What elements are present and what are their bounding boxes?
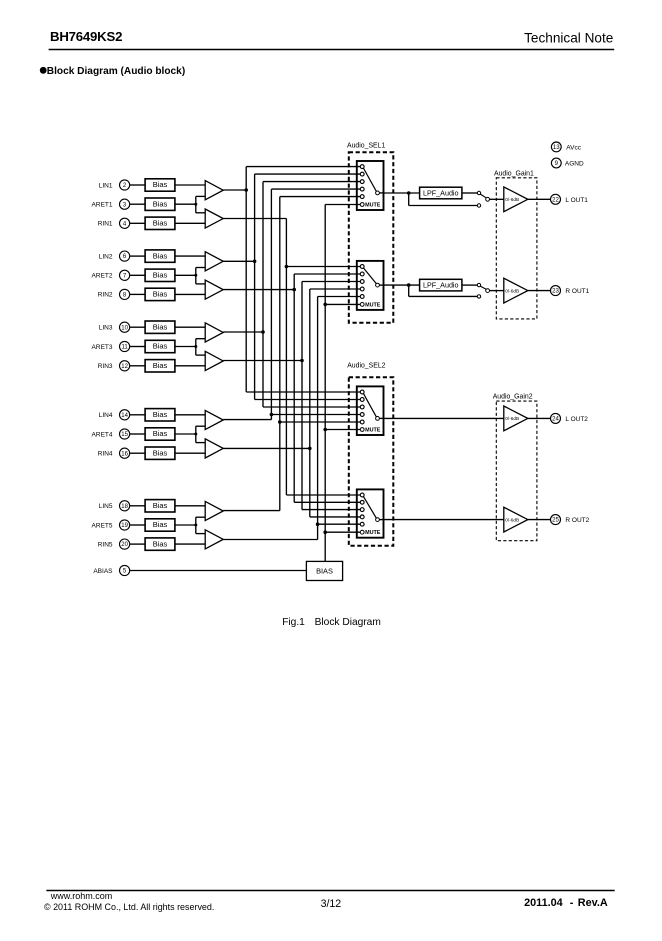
svg-text:Bias: Bias [153, 429, 168, 438]
svg-text:13: 13 [553, 144, 560, 151]
svg-text:Audio_Gain2: Audio_Gain2 [493, 394, 533, 401]
svg-text:BIAS: BIAS [316, 567, 333, 576]
svg-text:ARET5: ARET5 [92, 522, 113, 529]
svg-text:ARET1: ARET1 [92, 202, 113, 209]
svg-text:15: 15 [121, 432, 128, 438]
svg-text:Bias: Bias [153, 361, 168, 370]
svg-text:12: 12 [121, 364, 128, 370]
svg-text:ARET4: ARET4 [92, 431, 113, 438]
svg-text:© 2011 ROHM Co., Ltd. All righ: © 2011 ROHM Co., Ltd. All rights reserve… [44, 902, 214, 912]
svg-text:Block Diagram: Block Diagram [315, 617, 381, 628]
svg-text:MUTE: MUTE [365, 202, 381, 208]
svg-text:ARET3: ARET3 [92, 344, 113, 351]
svg-text:RIN3: RIN3 [98, 363, 113, 370]
svg-text:RIN5: RIN5 [98, 541, 113, 548]
svg-text:Bias: Bias [153, 342, 168, 351]
svg-text:AGND: AGND [565, 161, 584, 168]
svg-text:3/12: 3/12 [321, 898, 342, 910]
svg-text:Audio_Gain1: Audio_Gain1 [494, 171, 534, 178]
svg-text:Bias: Bias [153, 322, 168, 331]
svg-text:RIN1: RIN1 [98, 221, 113, 228]
svg-text:2011.04: 2011.04 [524, 897, 563, 909]
svg-text:24: 24 [552, 416, 559, 423]
svg-text:Bias: Bias [153, 448, 168, 457]
svg-text:BH7649KS2: BH7649KS2 [50, 29, 122, 44]
svg-text:22: 22 [552, 196, 559, 203]
svg-text:14: 14 [121, 413, 128, 419]
svg-text:Audio_SEL1: Audio_SEL1 [347, 143, 385, 150]
svg-text:Bias: Bias [153, 219, 168, 228]
svg-text:LPF_Audio: LPF_Audio [423, 281, 459, 290]
svg-text:Rev.A: Rev.A [578, 897, 608, 909]
svg-text:-: - [570, 897, 574, 909]
svg-text:Block Diagram (Audio block): Block Diagram (Audio block) [47, 66, 185, 77]
svg-text:0/-6dB: 0/-6dB [505, 197, 519, 202]
svg-text:Bias: Bias [153, 539, 168, 548]
svg-text:Audio_SEL2: Audio_SEL2 [347, 363, 385, 370]
svg-text:0/-6dB: 0/-6dB [505, 416, 519, 421]
svg-text:Technical Note: Technical Note [524, 31, 613, 46]
svg-text:Bias: Bias [153, 501, 168, 510]
svg-text:RIN2: RIN2 [98, 292, 113, 299]
svg-text:MUTE: MUTE [365, 530, 381, 536]
svg-text:ABIAS: ABIAS [93, 568, 113, 575]
svg-text:Bias: Bias [153, 520, 168, 529]
svg-text:ARET2: ARET2 [92, 273, 113, 280]
svg-text:LIN5: LIN5 [99, 503, 113, 510]
svg-text:Bias: Bias [153, 271, 168, 280]
svg-text:Fig.1: Fig.1 [282, 617, 305, 628]
svg-text:LIN2: LIN2 [99, 253, 113, 260]
svg-text:www.rohm.com: www.rohm.com [50, 891, 113, 901]
svg-text:R OUT2: R OUT2 [565, 517, 589, 524]
svg-text:MUTE: MUTE [365, 427, 381, 433]
svg-text:20: 20 [121, 542, 128, 548]
svg-text:19: 19 [121, 523, 128, 529]
svg-text:AVcc: AVcc [566, 145, 581, 152]
svg-text:16: 16 [121, 451, 128, 457]
svg-text:10: 10 [121, 325, 128, 331]
svg-text:11: 11 [121, 345, 128, 351]
svg-text:LPF_Audio: LPF_Audio [423, 189, 459, 198]
svg-text:R OUT1: R OUT1 [565, 288, 589, 295]
svg-text:LIN3: LIN3 [99, 325, 113, 332]
svg-text:Bias: Bias [153, 199, 168, 208]
svg-text:Bias: Bias [153, 410, 168, 419]
svg-text:23: 23 [552, 288, 559, 295]
svg-text:L OUT2: L OUT2 [565, 416, 588, 423]
svg-text:Bias: Bias [153, 290, 168, 299]
svg-text:LIN1: LIN1 [99, 182, 113, 189]
svg-text:RIN4: RIN4 [98, 451, 113, 458]
svg-text:18: 18 [121, 504, 128, 510]
svg-text:LIN4: LIN4 [99, 412, 113, 419]
svg-text:MUTE: MUTE [365, 302, 381, 308]
svg-text:0/-6dB: 0/-6dB [505, 517, 519, 522]
svg-text:L OUT1: L OUT1 [565, 197, 588, 204]
svg-text:25: 25 [552, 517, 559, 524]
svg-text:Bias: Bias [153, 251, 168, 260]
svg-text:Bias: Bias [153, 180, 168, 189]
svg-text:0/-6dB: 0/-6dB [505, 288, 519, 293]
